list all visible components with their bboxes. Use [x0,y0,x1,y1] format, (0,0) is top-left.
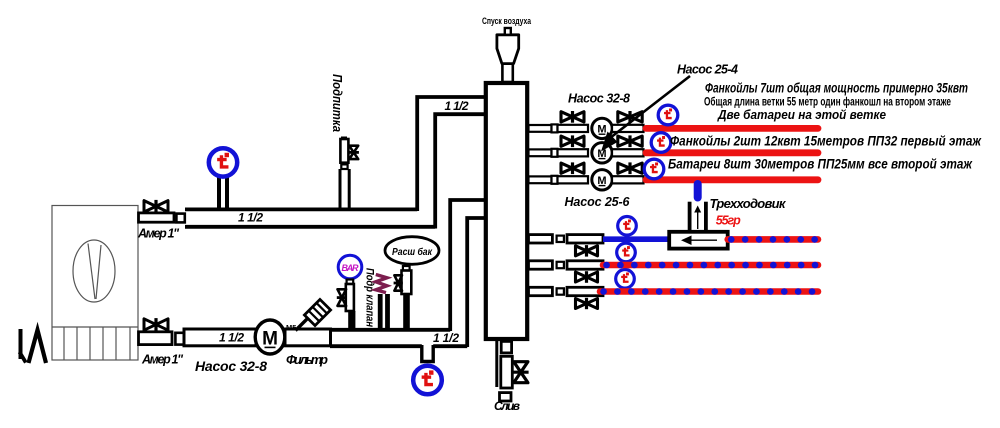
supply riser outer [417,97,484,211]
pointer line Nasos 25-4 [601,76,690,152]
three-way valve neck [690,202,706,232]
svg-text:Насос 32-8: Насос 32-8 [195,358,267,374]
svg-text:Фанкойлы 2шт 12квт 15метров ПП: Фанкойлы 2шт 12квт 15метров ПП32 первый … [670,134,982,149]
supply branch 2 red pipe [646,149,818,156]
return branch 2 stub from separator [529,261,553,269]
podpitka flange square [341,164,347,169]
thermometer supply branch 3 [644,159,664,179]
supply branch 1 valve 1 [561,111,584,123]
label Nasos 32-8 (pump) [195,358,267,374]
podpitka pipe body [340,139,348,163]
pump circle branch 3 [592,170,612,190]
boiler fan ellipse [73,240,115,302]
blue stub above three-way valve [694,184,702,198]
return branch 3 valve [576,298,598,309]
svg-text:Общая длина ветки 55 метр один: Общая длина ветки 55 метр один фанкошл н… [704,95,951,109]
podpitka valve [348,146,359,159]
return branch 1 stub from separator [529,235,553,243]
return branch 1 pipe rect [567,235,603,243]
svg-text:1 1/2: 1 1/2 [433,331,459,345]
label Amer 1" bottom [141,353,184,367]
podpitka top cap [341,137,347,140]
supply branch 3 pipe before valve [558,176,589,183]
label Nasos 25-6 [565,195,631,209]
note line 3 two radiators [717,108,886,122]
BAR stem square [347,280,354,285]
supply branch 3 flange square [552,176,558,184]
supply branch 3 valve 1 [561,162,584,174]
supply branch 2 pipe before valve [558,149,589,156]
dashed pipe return branch 2 [603,262,818,269]
label Podpitka (vertical) [330,74,345,132]
thermometer T1 (supply from boiler) [209,148,237,176]
return branch 1 small square [557,236,564,242]
dashed pipe after three-way valve [728,236,818,243]
svg-text:Подр клапан: Подр клапан [364,268,376,327]
supply branch 2 valve 1 [561,135,584,147]
american coupling (amer) top [139,213,175,222]
drain pipe rect [501,356,513,388]
expansion tank pipe body [402,271,412,295]
return branch 3 pipe rect [567,287,603,295]
svg-text:Фанкойлы 7шт общая мощность пр: Фанкойлы 7шт общая мощность примерно 35к… [705,80,968,96]
supply branch 3 pipe after pump [612,176,644,183]
supply branch 2 stub from separator [529,149,552,156]
supply pipe bottom line [185,225,435,229]
svg-text:Две батареи на этой ветке: Две батареи на этой ветке [717,108,886,122]
note line 4 fancoils first floor [670,134,982,149]
podpitka drop pipe [340,169,349,208]
filter (Y-strainer) [296,299,331,330]
label 1 1/2 in return pipe [219,331,244,345]
label Trekhkhodovik [710,196,787,211]
pump Nasos 32-8 circle [255,320,285,354]
label 1 1/2 at riser [445,99,469,113]
return branch 2 pipe rect [567,261,603,269]
label 55gr [716,214,741,228]
blue pipe from return branch 1 [603,236,670,242]
pump circle branch 1 [592,118,612,138]
return branch 2 valve [576,271,598,283]
pump circle branch 2 [592,143,612,163]
return branch 3 stub from separator [529,287,553,295]
drain side line [495,339,498,387]
thermometer T1 stand [219,176,227,208]
return branch 2 small square [557,262,564,268]
boiler unit body [52,206,138,361]
svg-text:Расш бак: Расш бак [392,246,433,258]
flange square bottom [175,333,184,345]
supply branch 2 pipe after pump [612,149,644,156]
svg-text:М5: М5 [286,323,296,332]
supply branch 1 pipe before valve [558,125,589,132]
thermometer return branch 3 [616,270,635,289]
label M5 [286,323,296,332]
supply branch 1 flange square [552,124,558,132]
return branch 3 small square [557,288,564,294]
dashed pipe return branch 3 [600,288,818,295]
BAR drop to pipe [348,311,355,331]
svg-text:1 1/2: 1 1/2 [238,211,263,225]
air vent nipple [505,28,511,35]
thermometer return branch 2 [617,243,636,262]
svg-text:1 1/2: 1 1/2 [219,331,244,345]
supply branch 3 valve 2 [618,162,642,174]
flange square top [176,214,184,223]
svg-text:Батареи 8шт 30метров ПП25мм вс: Батареи 8шт 30метров ПП25мм все второй э… [668,157,973,172]
valve at boiler return inlet [144,318,168,331]
label Podr klapan (vertical) [364,268,376,327]
svg-text:Насос 32-8: Насос 32-8 [568,92,630,106]
supply branch 1 red pipe [646,125,818,132]
supply branch 1 valve 2 [618,111,642,123]
expansion tank ellipse (Rassh bak) [385,237,439,265]
return pipe rect after pump [285,329,331,346]
handwritten V1 mark [20,329,47,363]
svg-text:BAR: BAR [342,263,360,273]
svg-text:1 1/2: 1 1/2 [445,99,469,113]
BAR valve [337,289,347,306]
label Sliv [494,399,520,413]
podr klapan spring zigzag [376,275,387,293]
svg-text:Амер 1": Амер 1" [137,227,180,241]
return riser inner [467,218,484,347]
label 1 1/2 near return riser [433,331,459,345]
drain flange rect [501,341,511,353]
expansion tank drop to pipe [403,294,410,331]
podr klapan U-pipe [380,294,387,332]
return pipe rect before pump [184,329,256,346]
supply branch 3 stub from separator [529,176,552,183]
thermometer supply branch 1 [658,105,678,125]
note line 2 branch length [704,95,951,109]
supply branch 2 flange square [552,149,558,157]
valve at boiler supply outlet [144,200,168,213]
svg-text:Насос 25-4: Насос 25-4 [677,63,738,77]
svg-text:Трехходовик: Трехходовик [710,196,787,211]
supply riser inner [435,114,484,228]
svg-text:М: М [262,329,278,350]
svg-text:Амер 1": Амер 1" [141,353,184,367]
return riser outer [450,200,484,331]
thermometer return branch 1 [618,217,637,236]
thermometer T2 (return) [413,366,442,395]
svg-text:55гр: 55гр [716,214,741,228]
label 1 1/2 on supply pipe [238,211,263,225]
air vent body [497,35,519,64]
boiler heat-exchanger hatch [52,327,138,360]
label Spusk vozdukha [482,16,532,27]
svg-text:Слив: Слив [494,399,520,413]
american coupling (amer) bottom [139,332,173,345]
svg-text:Подпитка: Подпитка [330,74,345,132]
BAR pipe body [346,284,354,311]
hydraulic separator vessel [486,83,527,339]
air vent stem [502,63,512,83]
supply branch 1 stub from separator [529,125,552,132]
return pipe bottom line (with pocket gap) [330,344,467,348]
svg-text:Фильтр: Фильтр [286,352,328,367]
label Filtr [286,352,328,367]
BAR gauge [338,255,362,279]
supply branch 1 pipe after pump [612,125,644,132]
supply branch 3 red pipe [646,176,818,183]
drain valve [513,362,529,383]
svg-text:Спуск воздуха: Спуск воздуха [482,16,532,27]
expansion tank stem square [403,266,410,271]
label Amer 1" top [137,227,180,241]
thermometer pocket on return pipe [422,345,433,362]
return branch 1 valve [576,245,598,257]
thermometer supply branch 2 [651,133,671,153]
supply branch 2 valve 2 [618,135,642,147]
three-way valve body [669,232,728,249]
label Nasos 32-8 (top branches) [568,92,630,106]
supply pipe top line [185,207,417,211]
expansion tank valve [394,275,403,290]
note line 1 fancoils power [705,80,968,96]
note line 5 radiators second floor [668,157,973,172]
svg-text:Насос 25-6: Насос 25-6 [565,195,631,209]
drain bottom square [500,393,512,401]
label Nasos 25-4 [677,63,738,77]
return pipe top line [330,328,450,332]
